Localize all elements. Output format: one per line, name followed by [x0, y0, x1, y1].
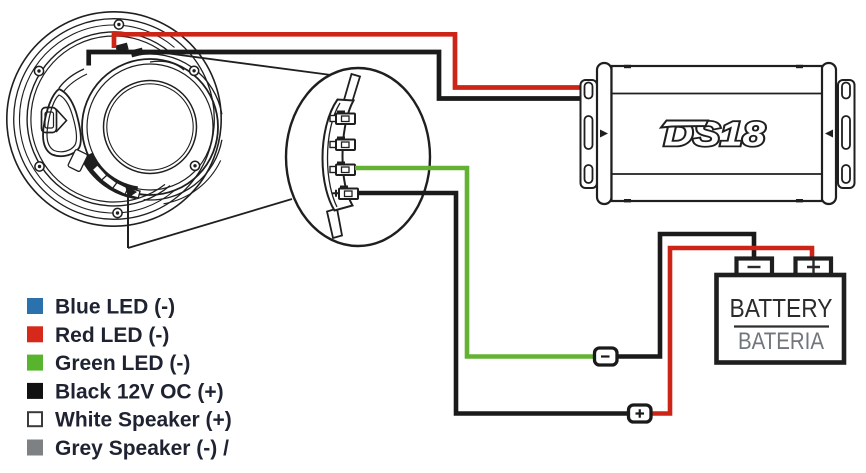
svg-text:Grey Speaker (-) /: Grey Speaker (-) / [55, 437, 229, 460]
svg-text:BATTERY: BATTERY [730, 293, 833, 323]
svg-text:Black 12V OC (+): Black 12V OC (+) [55, 380, 224, 403]
svg-text:Green LED (-): Green LED (-) [55, 352, 190, 375]
svg-text:Red LED (-): Red LED (-) [55, 324, 169, 347]
svg-text:White Speaker (+): White Speaker (+) [55, 409, 232, 432]
svg-text:BATERIA: BATERIA [738, 328, 824, 355]
svg-text:Blue LED (-): Blue LED (-) [55, 296, 175, 319]
